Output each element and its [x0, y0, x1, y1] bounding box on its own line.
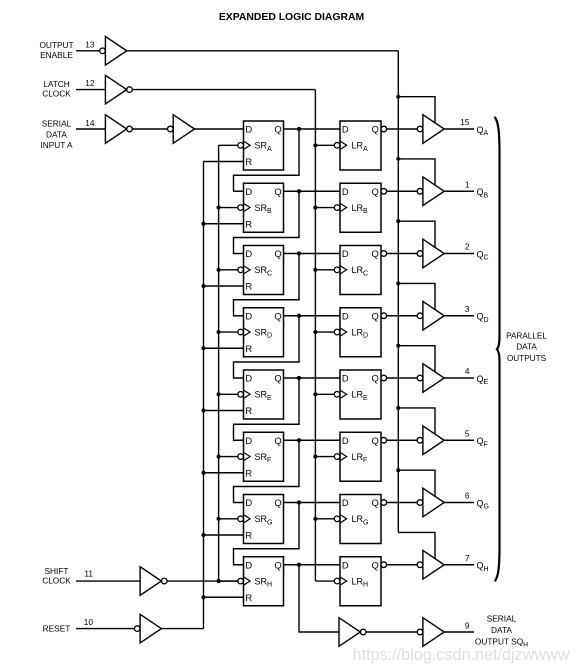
wire pin14 to U3a — [76, 128, 105, 130]
svg-text:7: 7 — [465, 553, 470, 563]
svg-text:D: D — [245, 559, 252, 570]
junction shift bus stage H — [217, 579, 221, 583]
pin 3 label — [465, 304, 470, 314]
tri-state buffer QD — [417, 301, 444, 330]
wire LRD Q to output buffer — [381, 313, 417, 319]
pin 13 label — [85, 40, 95, 50]
svg-text:QF: QF — [477, 436, 488, 448]
svg-text:DATA: DATA — [46, 129, 67, 139]
latch LRG — [334, 495, 381, 544]
svg-text:R: R — [245, 530, 252, 541]
wire shift bus to SRA clock — [219, 144, 238, 146]
svg-text:Q: Q — [372, 559, 379, 570]
junction shift bus stage B — [217, 205, 221, 209]
wire latch bus to LRD clock — [315, 331, 334, 333]
svg-text:Q: Q — [372, 497, 379, 508]
buffer U3b serial data (input bubble) — [168, 115, 195, 144]
wire LRA Q to output buffer — [381, 126, 417, 132]
pin 10 label — [84, 617, 94, 627]
svg-text:DATA: DATA — [491, 625, 512, 635]
wire OE bus to buffer QA enable — [398, 97, 435, 123]
wire shift bus to SRH clock — [219, 580, 238, 582]
wire reset bus to SRB R — [204, 223, 244, 225]
junction reset bus stage B — [201, 222, 205, 226]
svg-text:DATA: DATA — [516, 343, 537, 352]
wire output-enable net (U1 to OE bus) — [127, 50, 399, 52]
svg-text:QA: QA — [477, 125, 489, 137]
junction node Qf internal — [297, 438, 301, 442]
wire pin10 to U5 — [76, 628, 134, 630]
wire SRF Q to SRG D — [234, 440, 300, 502]
wire reset bus to SRE R — [204, 410, 244, 412]
pin 5 label — [465, 428, 470, 438]
wire buffer to pin QB — [444, 190, 474, 192]
pin 12 label — [85, 78, 95, 88]
pin 11 label — [84, 569, 93, 579]
wire SRH Q to serial output inverter — [299, 565, 339, 632]
svg-text:Q: Q — [372, 186, 379, 197]
wire pin11 to U4 — [76, 580, 140, 582]
wire latch clock bus vertical — [314, 90, 316, 581]
svg-text:4: 4 — [465, 366, 470, 376]
svg-text:QB: QB — [477, 187, 489, 199]
tri-state buffer QC — [417, 239, 444, 268]
wire SRA Q to LRA D — [284, 128, 341, 130]
wire buffer to pin QG — [444, 502, 474, 504]
junction node Qa internal — [297, 127, 301, 131]
node QH label — [477, 561, 489, 573]
inverter U6 serial output — [339, 618, 366, 647]
wire shift bus to SRC clock — [219, 269, 238, 271]
label PARALLEL DATA OUTPUTS — [506, 331, 547, 363]
flip-flop SRE — [238, 370, 284, 419]
node QC label — [477, 249, 489, 261]
svg-text:LATCH: LATCH — [43, 79, 70, 89]
wire SRC Q to SRD D — [234, 254, 300, 316]
svg-text:10: 10 — [84, 617, 94, 627]
junction node Qd internal — [297, 314, 301, 318]
buffer U7 serial output (input bubble) — [417, 618, 444, 647]
junction OE bus stage A — [396, 95, 400, 99]
pin 7 label — [465, 553, 470, 563]
wire SRF Q to LRF D — [284, 439, 341, 441]
svg-text:https://blog.csdn.net/djzwwww: https://blog.csdn.net/djzwwww — [353, 646, 570, 664]
wire latch bus to LRA clock — [315, 144, 334, 146]
inverter U5 RESET (input bubble) — [134, 614, 161, 643]
junction reset bus stage E — [201, 408, 205, 412]
inverter U4 SHIFT CLOCK — [140, 567, 167, 596]
label LATCH CLOCK — [42, 79, 71, 99]
watermark — [353, 646, 570, 664]
svg-text:D: D — [245, 186, 252, 197]
svg-text:D: D — [245, 310, 252, 321]
svg-text:Q: Q — [372, 248, 379, 259]
junction OE bus stage B — [396, 157, 400, 161]
pin 14 label — [85, 118, 95, 128]
pin 6 label — [465, 491, 470, 501]
junction node Qc internal — [297, 251, 301, 255]
svg-text:Q: Q — [274, 373, 281, 384]
svg-text:Q: Q — [274, 497, 281, 508]
wire SRB Q to LRB D — [284, 190, 341, 192]
pin 9 label — [465, 620, 470, 630]
wire SRA Q to SRB D — [234, 129, 300, 191]
brace parallel data outputs — [495, 117, 500, 582]
wire OE bus to buffer QH enable — [398, 532, 435, 558]
wire SRE Q to LRE D — [284, 377, 341, 379]
wire latch bus to LRE clock — [315, 393, 334, 395]
wire latch bus to LRH clock — [315, 580, 334, 582]
svg-text:INPUT A: INPUT A — [40, 140, 73, 150]
svg-text:CLOCK: CLOCK — [42, 89, 71, 99]
svg-text:Q: Q — [274, 248, 281, 259]
wire OE bus to buffer QB enable — [398, 159, 435, 185]
wire pin12 to U2 — [76, 89, 105, 91]
svg-text:Q: Q — [274, 559, 281, 570]
junction node Qe internal — [297, 376, 301, 380]
tri-state buffer QE — [417, 364, 444, 393]
svg-text:QE: QE — [477, 374, 489, 386]
junction OE bus stage E — [396, 344, 400, 348]
wire latch bus to LRG clock — [315, 518, 334, 520]
junction latch bus stage B — [313, 205, 317, 209]
svg-text:OUTPUTS: OUTPUTS — [507, 354, 547, 363]
svg-text:SHIFT: SHIFT — [45, 566, 69, 576]
latch LRC — [334, 246, 381, 295]
svg-text:D: D — [245, 124, 252, 135]
flip-flop SRF — [238, 432, 284, 481]
wire shift bus to SRD clock — [219, 331, 238, 333]
tri-state buffer QG — [417, 488, 444, 517]
svg-text:Q: Q — [372, 310, 379, 321]
wire SRB Q to SRC D — [234, 191, 300, 253]
wire latch bus to LRF clock — [315, 456, 334, 458]
node QE label — [477, 374, 489, 386]
svg-text:R: R — [245, 592, 252, 603]
junction node Qb internal — [297, 189, 301, 193]
wire latch bus to LRB clock — [315, 207, 334, 209]
flip-flop SRD — [238, 308, 284, 357]
label SERIAL DATA INPUT A — [40, 119, 73, 151]
node QG label — [477, 498, 489, 510]
tri-state buffer QF — [417, 426, 444, 455]
svg-text:D: D — [342, 497, 349, 508]
svg-text:D: D — [342, 435, 349, 446]
svg-text:Q: Q — [372, 124, 379, 135]
svg-text:D: D — [342, 124, 349, 135]
wire LRF Q to output buffer — [381, 437, 417, 443]
junction shift bus stage F — [217, 454, 221, 458]
junction OE bus stage F — [396, 406, 400, 410]
junction latch bus stage A — [313, 143, 317, 147]
wire shift bus to SRE clock — [219, 393, 238, 395]
label SHIFT CLOCK — [42, 566, 71, 586]
svg-text:15: 15 — [460, 117, 470, 127]
svg-text:D: D — [245, 248, 252, 259]
svg-text:Q: Q — [274, 435, 281, 446]
wire reset bus to SRD R — [204, 347, 244, 349]
node QD label — [477, 312, 489, 324]
svg-text:R: R — [245, 405, 252, 416]
wire LRB Q to output buffer — [381, 188, 417, 194]
wire LRH Q to output buffer — [381, 562, 417, 568]
wire buffer to pin QD — [444, 315, 474, 317]
svg-text:R: R — [245, 218, 252, 229]
svg-text:Q: Q — [274, 186, 281, 197]
svg-text:1: 1 — [465, 179, 470, 189]
svg-text:SERIAL: SERIAL — [42, 119, 72, 129]
latch LRE — [334, 370, 381, 419]
svg-text:Q: Q — [372, 435, 379, 446]
svg-text:D: D — [245, 435, 252, 446]
pin 15 label — [460, 117, 470, 127]
wire buffer to pin QA — [444, 128, 474, 130]
junction OE bus stage C — [396, 219, 400, 223]
wire OE bus to buffer QD enable — [398, 283, 435, 309]
svg-text:14: 14 — [85, 118, 95, 128]
svg-text:CLOCK: CLOCK — [42, 576, 71, 586]
wire reset bus vertical — [203, 162, 205, 629]
flip-flop SRC — [238, 246, 284, 295]
node QB label — [477, 187, 489, 199]
svg-text:Q: Q — [274, 124, 281, 135]
title EXPANDED LOGIC DIAGRAM — [219, 12, 364, 23]
wire buffer to pin QF — [444, 439, 474, 441]
wire OE bus vertical — [397, 51, 399, 533]
inverter U3a serial data — [105, 115, 132, 144]
wire SRG Q to SRH D — [234, 503, 300, 565]
svg-text:ENABLE: ENABLE — [40, 50, 73, 60]
latch LRH — [334, 557, 381, 606]
wire U6 to U7 — [366, 631, 417, 633]
flip-flop SRA — [238, 121, 284, 170]
wire shift bus to SRB clock — [219, 207, 238, 209]
wire U7 to pin 9 — [444, 631, 474, 633]
svg-text:11: 11 — [84, 569, 93, 579]
wire LRC Q to output buffer — [381, 251, 417, 257]
wire reset bus to SRG R — [204, 534, 244, 536]
junction shift bus stage C — [217, 268, 221, 272]
wire OE bus to buffer QC enable — [398, 221, 435, 247]
wire latch-clock net (U2 to latch bus) — [132, 89, 315, 91]
junction latch bus stage C — [313, 268, 317, 272]
wire buffer to pin QC — [444, 253, 474, 255]
svg-text:R: R — [245, 467, 252, 478]
svg-text:9: 9 — [465, 620, 470, 630]
svg-text:D: D — [245, 373, 252, 384]
svg-text:QC: QC — [477, 249, 489, 261]
svg-text:Q: Q — [274, 310, 281, 321]
latch LRD — [334, 308, 381, 357]
svg-text:D: D — [342, 248, 349, 259]
wire SRC Q to LRC D — [284, 253, 341, 255]
junction OE bus stage G — [396, 468, 400, 472]
svg-text:EXPANDED LOGIC DIAGRAM: EXPANDED LOGIC DIAGRAM — [219, 12, 364, 23]
svg-text:PARALLEL: PARALLEL — [506, 331, 547, 340]
wire latch bus to LRC clock — [315, 269, 334, 271]
wire U5 output to reset bus — [161, 628, 203, 630]
junction latch bus stage G — [313, 517, 317, 521]
tri-state buffer QB — [417, 177, 444, 206]
buffer U1 OUTPUT ENABLE (input bubble) — [100, 37, 127, 66]
wire shift bus to SRG clock — [219, 518, 238, 520]
junction latch bus stage E — [313, 392, 317, 396]
wire SRG Q to LRG D — [284, 502, 341, 504]
wire buffer to pin QH — [444, 564, 474, 566]
svg-text:Q: Q — [372, 373, 379, 384]
wire SRD Q to LRD D — [284, 315, 341, 317]
junction latch bus stage D — [313, 330, 317, 334]
node QF label — [477, 436, 488, 448]
svg-text:6: 6 — [465, 491, 470, 501]
wire U4 to SRH clock — [167, 580, 238, 582]
wire U3b to SRA D input — [195, 128, 244, 130]
wire buffer to pin QE — [444, 377, 474, 379]
wire OE bus to buffer QE enable — [398, 346, 435, 372]
wire pin13 to U1 — [76, 50, 100, 52]
svg-text:13: 13 — [85, 40, 95, 50]
latch LRF — [334, 432, 381, 481]
svg-text:3: 3 — [465, 304, 470, 314]
junction node Qh internal — [297, 563, 301, 567]
wire reset bus to SRC R — [204, 285, 244, 287]
svg-text:QG: QG — [477, 498, 489, 510]
wire SRH Q to LRH D — [284, 564, 341, 566]
svg-text:QD: QD — [477, 312, 489, 324]
flip-flop SRB — [238, 183, 284, 232]
tri-state buffer QA — [417, 115, 444, 144]
label OUTPUT ENABLE — [39, 40, 73, 60]
svg-text:5: 5 — [465, 428, 470, 438]
inverter U2 LATCH CLOCK — [105, 75, 132, 104]
svg-text:R: R — [245, 343, 252, 354]
junction shift bus stage D — [217, 330, 221, 334]
junction shift bus stage G — [217, 517, 221, 521]
wire SRD Q to SRE D — [234, 316, 300, 378]
junction reset bus stage G — [201, 533, 205, 537]
node QA label — [477, 125, 489, 137]
svg-text:D: D — [342, 373, 349, 384]
junction shift bus bottom — [217, 579, 221, 583]
wire OE bus to buffer QG enable — [398, 470, 435, 496]
svg-text:R: R — [245, 281, 252, 292]
wire SRE Q to SRF D — [234, 378, 300, 440]
wire U3a to U3b — [132, 128, 167, 130]
wire OE bus to buffer QF enable — [398, 408, 435, 434]
flip-flop SRG — [238, 495, 284, 544]
junction shift bus stage E — [217, 392, 221, 396]
label RESET — [43, 624, 71, 634]
junction reset bus stage F — [201, 471, 205, 475]
pin 1 label — [465, 179, 470, 189]
tri-state buffer QH — [417, 550, 444, 579]
svg-text:2: 2 — [465, 242, 470, 252]
flip-flop SRH — [238, 557, 284, 606]
latch LRB — [334, 183, 381, 232]
svg-text:12: 12 — [85, 78, 95, 88]
svg-text:OUTPUT: OUTPUT — [39, 40, 73, 50]
junction reset bus stage D — [201, 346, 205, 350]
svg-text:QH: QH — [477, 561, 489, 573]
wire LRE Q to output buffer — [381, 375, 417, 381]
pin 4 label — [465, 366, 470, 376]
svg-text:D: D — [245, 497, 252, 508]
junction reset bus stage H — [201, 595, 205, 599]
wire shift bus to SRF clock — [219, 456, 238, 458]
pin 2 label — [465, 242, 470, 252]
wire reset bus to SRA R — [204, 161, 244, 163]
wire reset bus to SRF R — [204, 472, 244, 474]
wire reset bus to SRH R — [204, 596, 244, 598]
junction reset bus stage C — [201, 284, 205, 288]
svg-text:SERIAL: SERIAL — [487, 613, 517, 623]
junction node Qg internal — [297, 500, 301, 504]
label SERIAL DATA OUTPUT SQH — [475, 613, 528, 648]
svg-text:RESET: RESET — [43, 624, 71, 634]
svg-text:D: D — [342, 310, 349, 321]
svg-text:R: R — [245, 156, 252, 167]
latch LRA — [334, 121, 381, 170]
junction OE bus stage D — [396, 281, 400, 285]
junction latch bus stage F — [313, 454, 317, 458]
wire LRG Q to output buffer — [381, 500, 417, 506]
svg-text:D: D — [342, 186, 349, 197]
wire shift clock bus vertical — [218, 145, 220, 581]
svg-text:D: D — [342, 559, 349, 570]
